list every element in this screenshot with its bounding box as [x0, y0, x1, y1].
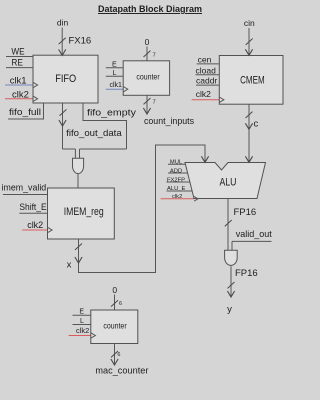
svg-text:clk2: clk2: [196, 89, 211, 99]
svg-text:x: x: [67, 260, 72, 271]
svg-text:FX2FP: FX2FP: [167, 177, 185, 183]
svg-text:0: 0: [145, 37, 150, 47]
svg-text:7: 7: [153, 99, 156, 105]
svg-text:ADD: ADD: [170, 168, 182, 174]
svg-text:count_inputs: count_inputs: [144, 116, 194, 127]
svg-text:0: 0: [112, 285, 117, 295]
svg-text:fifo_full: fifo_full: [9, 107, 41, 118]
svg-text:FP16: FP16: [235, 268, 258, 279]
svg-text:E: E: [112, 61, 117, 68]
svg-text:caddr: caddr: [196, 76, 217, 86]
svg-text:mac_counter: mac_counter: [95, 366, 148, 377]
svg-text:c: c: [254, 119, 259, 130]
svg-text:clk2: clk2: [27, 220, 43, 230]
svg-text:WE: WE: [11, 46, 24, 57]
svg-text:FP16: FP16: [234, 207, 257, 218]
svg-text:ALU_E: ALU_E: [167, 186, 186, 192]
svg-text:6: 6: [117, 352, 120, 358]
svg-text:clk1: clk1: [10, 76, 27, 87]
svg-text:L: L: [80, 318, 84, 325]
svg-text:L: L: [113, 70, 117, 77]
svg-text:IMEM_reg: IMEM_reg: [64, 206, 104, 218]
svg-text:clk2: clk2: [12, 89, 29, 100]
svg-text:counter: counter: [103, 322, 127, 331]
svg-text:FIFO: FIFO: [55, 73, 76, 85]
svg-text:Datapath Block Diagram: Datapath Block Diagram: [98, 4, 202, 15]
svg-text:cload: cload: [196, 65, 217, 75]
svg-text:fifo_out_data: fifo_out_data: [66, 128, 122, 139]
svg-text:CMEM: CMEM: [240, 74, 265, 86]
svg-text:ALU: ALU: [220, 177, 237, 189]
svg-text:MUL: MUL: [170, 160, 183, 166]
svg-text:cen: cen: [198, 55, 212, 65]
svg-text:fifo_empty: fifo_empty: [87, 108, 136, 119]
svg-text:RE: RE: [11, 57, 23, 68]
svg-text:clk2: clk2: [172, 194, 182, 200]
svg-text:clk1: clk1: [110, 82, 123, 89]
svg-text:counter: counter: [136, 73, 160, 82]
svg-text:FX16: FX16: [69, 36, 92, 47]
svg-text:7: 7: [153, 52, 156, 58]
svg-text:E: E: [79, 309, 84, 316]
svg-text:din: din: [57, 18, 69, 28]
svg-text:6: 6: [119, 301, 122, 307]
svg-text:Shift_E: Shift_E: [19, 202, 46, 212]
svg-text:valid_out: valid_out: [236, 229, 272, 240]
svg-text:y: y: [227, 304, 232, 315]
svg-text:cin: cin: [244, 18, 255, 28]
svg-text:clk2: clk2: [76, 328, 89, 335]
svg-text:imem_valid: imem_valid: [2, 183, 47, 193]
